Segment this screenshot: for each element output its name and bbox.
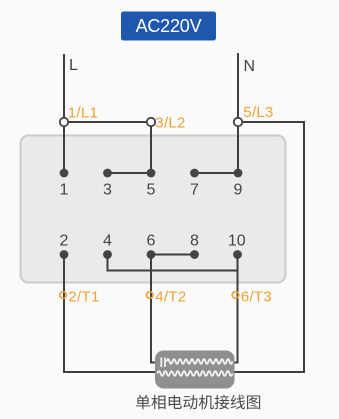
- terminal 6/T3: [232, 289, 272, 306]
- pole 7: [190, 169, 199, 199]
- terminal 1/L1: [60, 105, 98, 127]
- svg-text:3/L2: 3/L2: [155, 115, 185, 132]
- svg-text:L: L: [69, 57, 78, 74]
- pole 4: [103, 233, 112, 259]
- terminal 4/T2: [147, 289, 187, 306]
- pole 3: [103, 169, 112, 199]
- svg-text:7: 7: [190, 182, 199, 199]
- terminal 3/L2: [147, 115, 186, 132]
- wire pole 6 to pole 8: [151, 254, 195, 256]
- caption: [136, 395, 260, 410]
- svg-text:1: 1: [60, 182, 69, 199]
- svg-text:4/T2: 4/T2: [155, 289, 186, 306]
- pole 5: [147, 169, 156, 199]
- wire pole 2 to motor left: [64, 255, 158, 373]
- terminal 2/T1: [60, 289, 100, 306]
- svg-text:1/L1: 1/L1: [68, 105, 98, 122]
- power source label AC220V: [121, 12, 216, 41]
- wire pole 6 to motor: [151, 255, 160, 363]
- svg-text:8: 8: [190, 233, 199, 250]
- svg-text:9: 9: [234, 182, 243, 199]
- pole 6: [147, 233, 156, 259]
- pole 10: [228, 233, 246, 259]
- svg-text:10: 10: [228, 233, 246, 250]
- pole 9: [234, 169, 243, 199]
- wire jumper pole 4 to pole 10: [108, 255, 238, 271]
- wire right loop vertical: [303, 121, 305, 372]
- svg-text:AC220V: AC220V: [136, 16, 202, 36]
- wire N line: [237, 53, 239, 173]
- svg-text:2: 2: [60, 233, 69, 250]
- terminal 5/L3: [234, 104, 274, 126]
- svg-text:2/T1: 2/T1: [68, 289, 99, 306]
- wire pole 7 to pole 9: [195, 172, 239, 174]
- svg-text:4: 4: [103, 233, 112, 250]
- wire pole 3 to pole 5: [108, 172, 152, 174]
- svg-text:6: 6: [147, 233, 156, 250]
- pole 2: [60, 233, 69, 259]
- wire pole 10 to motor: [230, 271, 238, 363]
- pole 8: [190, 233, 199, 259]
- wire L1 to L2: [64, 121, 151, 123]
- svg-text:6/T3: 6/T3: [241, 289, 272, 306]
- wire L line: [63, 54, 65, 173]
- wire L2 drop to pole 5: [150, 122, 152, 173]
- svg-text:3: 3: [103, 182, 112, 199]
- wire N to right loop: [238, 121, 304, 123]
- svg-text:5/L3: 5/L3: [243, 104, 273, 121]
- svg-text:5: 5: [147, 182, 156, 199]
- wire right loop to motor: [232, 371, 305, 373]
- contactor body: [21, 136, 286, 283]
- motor M1: [155, 351, 235, 389]
- svg-text:N: N: [244, 58, 256, 75]
- pole 1: [60, 169, 69, 199]
